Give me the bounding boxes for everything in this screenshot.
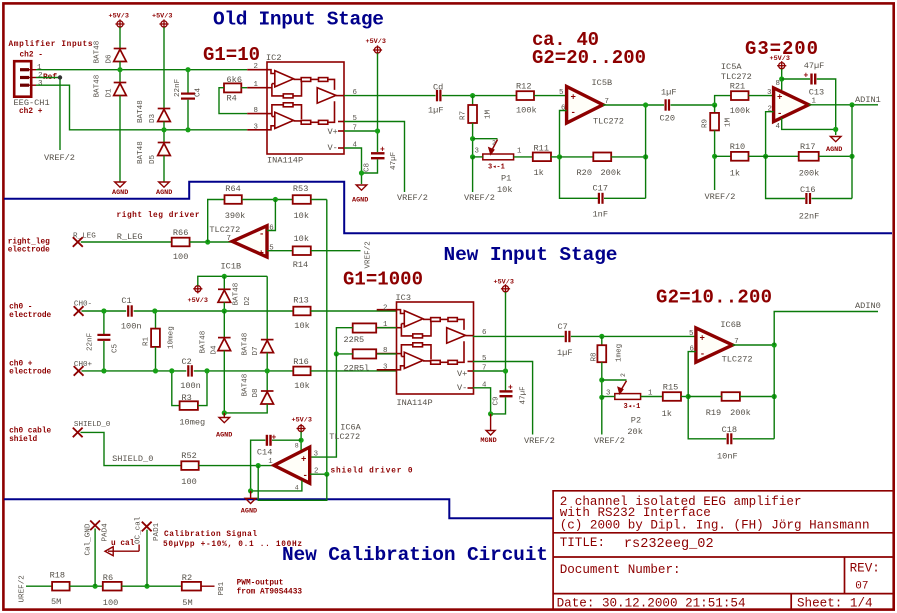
- wire IC5A V- to AGND row: [782, 118, 836, 129]
- wire IC3 pin5 to VREF/2: [473, 362, 533, 435]
- capacitor C6 1uF: [437, 90, 440, 101]
- ground AGND (D4/D8): [223, 413, 225, 417]
- svg-text:+: +: [571, 93, 576, 103]
- svg-text:22R5l: 22R5l: [344, 363, 370, 373]
- svg-text:1: 1: [37, 64, 42, 72]
- svg-text:P1: P1: [501, 174, 511, 184]
- svg-text:3◂-1: 3◂-1: [488, 164, 505, 172]
- svg-text:G1=10: G1=10: [203, 44, 260, 66]
- wire supply to pin8: [300, 432, 302, 450]
- svg-text:C20: C20: [660, 113, 675, 123]
- resistor R12 100k: [517, 91, 535, 100]
- capacitor C20 1uF: [666, 99, 669, 110]
- svg-text:22nF: 22nF: [799, 211, 820, 221]
- svg-text:3◂-1: 3◂-1: [624, 403, 641, 411]
- svg-text:+: +: [380, 146, 385, 155]
- wire IC6A feedback loop: [258, 466, 327, 501]
- svg-text:200k: 200k: [730, 408, 751, 418]
- svg-text:OC_cal: OC_cal: [135, 516, 143, 544]
- svg-text:10k: 10k: [294, 234, 309, 244]
- title block frame: [553, 491, 892, 610]
- wire D6 to ch2-: [119, 62, 121, 70]
- capacitor C1 100n (plates overwrite wire): [126, 305, 133, 318]
- wire shield to R52: [81, 432, 182, 465]
- svg-text:4: 4: [776, 123, 781, 131]
- node Ref corner dot: [58, 75, 62, 79]
- diode D7 BAT48: [261, 340, 274, 353]
- svg-text:5: 5: [689, 330, 693, 338]
- svg-text:7: 7: [227, 235, 231, 243]
- supply +5V/3 (D6): [115, 19, 124, 28]
- svg-text:2: 2: [492, 140, 496, 147]
- svg-text:VREF/2: VREF/2: [464, 193, 495, 203]
- svg-text:R10: R10: [730, 142, 745, 152]
- wire PAD4 down: [94, 529, 96, 587]
- svg-text:IC6A: IC6A: [340, 422, 361, 432]
- svg-text:D8: D8: [252, 388, 260, 398]
- svg-text:R3: R3: [182, 393, 192, 403]
- supply +5V/3 (D2): [193, 284, 202, 293]
- svg-text:5M: 5M: [182, 598, 192, 608]
- resistor R19 200k: [722, 392, 740, 401]
- ground MGND: [490, 414, 492, 431]
- svg-text:Old Input Stage: Old Input Stage: [213, 9, 384, 31]
- svg-text:10k: 10k: [294, 211, 309, 221]
- svg-text:C7: C7: [558, 322, 568, 332]
- svg-text:REV:: REV:: [850, 562, 880, 576]
- svg-text:VREF/2: VREF/2: [365, 241, 373, 269]
- svg-text:AGND: AGND: [112, 189, 128, 197]
- svg-text:R_LEG: R_LEG: [117, 232, 143, 242]
- svg-text:10k: 10k: [497, 185, 512, 195]
- svg-text:Amplifier Inputs: Amplifier Inputs: [9, 41, 93, 49]
- op-amp U IC5B: [567, 87, 603, 124]
- op-amp U IC5A: [774, 88, 809, 122]
- svg-text:20k: 20k: [627, 427, 642, 437]
- svg-text:VREF/2: VREF/2: [705, 192, 736, 202]
- svg-text:PAD4: PAD4: [102, 523, 110, 542]
- svg-text:(c) 2000 by Dipl. Ing. (FH) Jö: (c) 2000 by Dipl. Ing. (FH) Jörg Hansman…: [560, 519, 870, 533]
- wire IC6B feedback: [688, 352, 726, 439]
- svg-text:100n: 100n: [180, 381, 201, 391]
- svg-text:1k: 1k: [730, 168, 740, 178]
- svg-text:+: +: [272, 434, 277, 443]
- wire IC1B pin6 to R64/R53 node: [267, 200, 275, 231]
- resistor R53 10k: [293, 195, 311, 204]
- svg-text:R13: R13: [293, 295, 308, 305]
- svg-text:TLC272: TLC272: [721, 72, 752, 82]
- wire IC2 pin5 to VREF/2: [344, 122, 405, 193]
- wire +5V/3 to pin7: [505, 292, 507, 391]
- svg-text:3: 3: [475, 147, 479, 155]
- svg-text:1M: 1M: [725, 117, 733, 127]
- svg-text:C18: C18: [722, 425, 737, 435]
- svg-text:100n: 100n: [121, 321, 142, 331]
- svg-text:EEG-CH1: EEG-CH1: [14, 98, 50, 108]
- svg-text:IC3: IC3: [396, 293, 411, 303]
- svg-text:V+: V+: [457, 369, 467, 379]
- svg-text:47µF: 47µF: [804, 61, 825, 71]
- svg-text:R6: R6: [103, 573, 113, 583]
- node dots top line: [117, 67, 122, 72]
- wire R4 to pin1/pin8: [219, 88, 247, 114]
- supply +5V/3 (IC5A): [777, 61, 786, 70]
- svg-text:ch0 -: ch0 -: [9, 304, 32, 312]
- svg-text:ch2 +: ch2 +: [19, 108, 43, 116]
- resistor R15 1k: [663, 392, 681, 401]
- svg-text:R15: R15: [663, 382, 678, 392]
- svg-text:BAT48: BAT48: [94, 74, 102, 97]
- resistor R4 6k6: [224, 83, 241, 92]
- svg-text:rs232eeg_02: rs232eeg_02: [624, 537, 714, 552]
- diode D8 BAT48: [266, 371, 268, 391]
- resistor R66 100: [172, 238, 190, 247]
- svg-text:Date: 30.12.2000 21:51:54: Date: 30.12.2000 21:51:54: [557, 597, 746, 611]
- wire R16 to IC3 pin3: [311, 370, 397, 372]
- svg-text:+5V/3: +5V/3: [494, 279, 514, 287]
- resistor R18 5M: [52, 582, 70, 591]
- resistor R6 100: [103, 582, 122, 591]
- wire R12 to IC5B: [534, 95, 567, 97]
- svg-text:R9: R9: [702, 118, 710, 128]
- svg-text:Cd: Cd: [433, 83, 443, 93]
- svg-text:-: -: [777, 109, 782, 119]
- svg-text:D1: D1: [106, 88, 114, 98]
- op-amp U IC6A TLC272: [274, 447, 310, 483]
- svg-text:R_LEG: R_LEG: [73, 232, 96, 240]
- svg-text:INA114P: INA114P: [267, 156, 303, 166]
- op-amp U IC3 INA114P: [377, 302, 474, 394]
- svg-text:VREF/2: VREF/2: [524, 436, 555, 446]
- resistor R9 1M: [714, 105, 716, 113]
- svg-text:PWM-output: PWM-output: [237, 579, 284, 587]
- wire IC6A pin2 stub: [310, 473, 327, 475]
- svg-text:MGND: MGND: [480, 437, 496, 445]
- svg-text:New Input Stage: New Input Stage: [444, 244, 618, 266]
- svg-text:1µF: 1µF: [428, 106, 443, 116]
- wire R7 bottom to VREF/2: [472, 157, 474, 192]
- diode D6 BAT48: [114, 49, 127, 62]
- svg-text:ADIN1: ADIN1: [855, 95, 881, 105]
- svg-text:1: 1: [254, 81, 259, 89]
- resistor R14 10k: [293, 246, 311, 255]
- svg-text:ch0 +: ch0 +: [9, 360, 33, 368]
- wire IC1B pin5 to R14: [267, 250, 293, 252]
- svg-text:R18: R18: [50, 570, 65, 580]
- diode D5 BAT48: [163, 130, 165, 143]
- svg-text:VREF/2: VREF/2: [594, 436, 625, 446]
- svg-text:22nF: 22nF: [174, 78, 182, 97]
- resistor R8 1meg: [601, 336, 603, 345]
- svg-text:right_leg: right_leg: [8, 239, 50, 247]
- svg-text:100k: 100k: [730, 106, 751, 116]
- svg-text:PAD1: PAD1: [153, 522, 161, 541]
- svg-text:shield: shield: [9, 436, 37, 444]
- supply +5V/3 (IC6A): [297, 424, 306, 433]
- op-amp U IC1B TLC272: [232, 226, 267, 257]
- wire IC5A out ADIN1: [809, 104, 878, 106]
- svg-text:shield driver 0: shield driver 0: [331, 467, 413, 475]
- svg-text:electrode: electrode: [8, 247, 50, 255]
- op-amp U IC2 INA114P: [247, 62, 344, 154]
- capacitor C7 1uF: [566, 331, 570, 342]
- capacitor C13 47uF: [782, 78, 810, 80]
- wire VREF/2 to R18: [26, 585, 52, 587]
- wire IC6B out to ADIN0: [733, 344, 775, 346]
- svg-text:Calibration Signal: Calibration Signal: [164, 531, 257, 539]
- svg-text:C9: C9: [493, 396, 501, 406]
- svg-text:1M: 1M: [485, 109, 493, 119]
- svg-text:10meg: 10meg: [168, 326, 176, 349]
- svg-text:BAT48: BAT48: [242, 332, 250, 355]
- resistor R64 390k: [225, 195, 242, 204]
- wire C14 left to AGND column: [251, 440, 266, 491]
- svg-text:10k: 10k: [294, 321, 309, 331]
- capacitor C9 47uF: [500, 391, 513, 396]
- wire C20 to R21 node: [671, 96, 732, 105]
- svg-text:200k: 200k: [601, 168, 622, 178]
- svg-text:22nF: 22nF: [87, 332, 95, 351]
- svg-text:1nF: 1nF: [593, 210, 608, 220]
- wire D3 to ch2+: [163, 122, 165, 130]
- svg-text:from AT90S4433: from AT90S4433: [237, 588, 303, 596]
- capacitor C16 22nF: [766, 156, 805, 198]
- svg-text:390k: 390k: [225, 211, 246, 221]
- wire +5V/3 rail to V+ pin7 and C8: [377, 53, 379, 152]
- svg-text:G2=10..200: G2=10..200: [656, 287, 772, 309]
- svg-text:R52: R52: [181, 451, 196, 461]
- wire P1 terminals: [473, 156, 483, 158]
- wire common-mode rail (to IC6A pin2): [326, 200, 328, 475]
- svg-text:1k: 1k: [534, 168, 544, 178]
- svg-text:R64: R64: [225, 184, 240, 194]
- svg-text:1meg: 1meg: [616, 344, 624, 362]
- section divider calibration circuit: [4, 499, 553, 518]
- svg-text:V+: V+: [328, 127, 338, 137]
- svg-text:TLC272: TLC272: [722, 355, 753, 365]
- svg-text:AGND: AGND: [241, 507, 257, 515]
- wire IC5B feedback: [560, 111, 599, 199]
- wire midpoint to IC6A pin3: [311, 354, 336, 457]
- ground AGND (IC5A): [830, 137, 841, 142]
- svg-text:R12: R12: [516, 81, 531, 91]
- svg-text:+5V/3: +5V/3: [188, 297, 208, 305]
- capacitor C17 1nF: [599, 193, 603, 204]
- svg-text:47µF: 47µF: [520, 386, 528, 405]
- svg-text:8: 8: [254, 107, 258, 115]
- svg-text:D5: D5: [149, 154, 157, 164]
- svg-text:electrode: electrode: [9, 312, 51, 320]
- svg-text:D3: D3: [149, 113, 157, 123]
- svg-text:07: 07: [855, 581, 868, 593]
- diode D1 BAT48: [119, 70, 121, 83]
- svg-text:C1: C1: [121, 296, 131, 306]
- wire IC5B out: [603, 104, 664, 106]
- diode D3 BAT48: [158, 109, 171, 122]
- svg-text:TLC272: TLC272: [209, 225, 240, 235]
- diode D4 BAT48: [223, 311, 225, 338]
- resistor R17 200k: [766, 155, 799, 157]
- svg-text:R1: R1: [143, 336, 151, 346]
- wire supply to D3: [163, 27, 165, 108]
- wire C7 to IC6B pin5: [571, 335, 696, 337]
- svg-text:UREF/2: UREF/2: [19, 575, 27, 603]
- wire C6 to R12: [442, 95, 517, 97]
- svg-text:C17: C17: [593, 183, 608, 193]
- section divider old/new input stage: [4, 182, 892, 233]
- svg-text:VREF/2: VREF/2: [397, 193, 428, 203]
- wire IC6A pin4 to AGND: [251, 481, 302, 491]
- resistor R13 10k: [293, 307, 310, 316]
- capacitor C4 22nF: [181, 94, 195, 99]
- wire IC3 pin4 to MGND: [473, 388, 491, 414]
- svg-text:+: +: [508, 384, 513, 393]
- resistor 22R5L: [376, 353, 396, 355]
- svg-text:IC5A: IC5A: [721, 62, 742, 72]
- svg-text:IC5B: IC5B: [592, 78, 613, 88]
- wire R53 to common-mode rail: [311, 199, 327, 201]
- connector EEG-CH1: [14, 61, 36, 96]
- svg-text:+: +: [804, 72, 809, 81]
- resistor R20 200k: [560, 156, 594, 158]
- svg-text:TITLE:: TITLE:: [560, 536, 605, 550]
- svg-text:PB1: PB1: [218, 581, 226, 595]
- svg-text:ch0 cable: ch0 cable: [9, 427, 51, 435]
- svg-text:100: 100: [173, 252, 188, 262]
- svg-text:BAT48: BAT48: [94, 40, 102, 63]
- svg-text:3: 3: [314, 451, 318, 459]
- resistor R10 1k: [715, 155, 731, 157]
- svg-text:R7: R7: [460, 111, 468, 120]
- svg-text:R11: R11: [534, 143, 549, 153]
- svg-text:INA114P: INA114P: [397, 398, 433, 408]
- svg-text:+: +: [777, 93, 782, 103]
- svg-text:3: 3: [254, 123, 258, 131]
- svg-text:BAT48: BAT48: [200, 330, 208, 353]
- wire IC2 pin4 to AGND: [344, 148, 362, 184]
- trimmer P1 10k: [473, 138, 498, 140]
- svg-text:1µF: 1µF: [661, 87, 676, 97]
- svg-text:R14: R14: [293, 260, 308, 270]
- svg-text:ch2 -: ch2 -: [20, 52, 43, 60]
- svg-text:Document Number:: Document Number:: [560, 563, 681, 577]
- ground AGND (IC6A): [250, 491, 252, 498]
- svg-text:Sheet: 1/4: Sheet: 1/4: [797, 597, 873, 611]
- svg-text:+: +: [301, 455, 306, 465]
- wire R2 to PB1: [201, 585, 215, 587]
- wire Ref to VREF/2: [36, 78, 60, 151]
- svg-text:10meg: 10meg: [179, 417, 205, 427]
- svg-text:-: -: [700, 350, 705, 360]
- resistor 22R5 (R5): [376, 327, 396, 329]
- diode D2 BAT48: [223, 276, 225, 289]
- svg-text:BAT48: BAT48: [233, 282, 241, 305]
- wire ch0- line: [82, 310, 294, 312]
- svg-text:SHIELD_0: SHIELD_0: [112, 454, 153, 464]
- wire R14 to VREF/2: [311, 250, 361, 252]
- u cal measurement arrow: [105, 545, 139, 556]
- supply +5V/3 (D3): [159, 19, 168, 28]
- svg-text:47µF: 47µF: [390, 151, 398, 170]
- svg-text:IC2: IC2: [266, 53, 281, 63]
- svg-text:R53: R53: [293, 184, 308, 194]
- svg-text:1: 1: [268, 458, 273, 466]
- wire D5 to AGND: [163, 156, 165, 182]
- svg-text:8: 8: [295, 443, 299, 450]
- resistor R7 1M: [472, 96, 474, 105]
- svg-text:-: -: [571, 108, 576, 118]
- svg-text:R2: R2: [182, 573, 192, 583]
- svg-text:22R5: 22R5: [344, 335, 365, 345]
- svg-text:C5: C5: [112, 343, 120, 353]
- supply +5V/3 (IC2 V+): [373, 45, 382, 54]
- svg-text:3: 3: [767, 89, 771, 97]
- svg-text:R20: R20: [577, 168, 592, 178]
- svg-text:-: -: [303, 471, 308, 481]
- svg-text:-: -: [259, 230, 264, 240]
- svg-text:6k6: 6k6: [227, 75, 242, 85]
- svg-text:100: 100: [181, 477, 196, 487]
- resistor R16 10k: [293, 367, 310, 376]
- svg-text:SHIELD_0: SHIELD_0: [74, 421, 111, 429]
- svg-text:AGND: AGND: [156, 189, 172, 197]
- wire D7 chain vertical: [266, 276, 268, 339]
- svg-text:8: 8: [776, 80, 780, 88]
- svg-text:C8: C8: [364, 162, 372, 172]
- svg-text:+5V/3: +5V/3: [152, 13, 172, 21]
- wire PAD1 down: [146, 530, 148, 587]
- svg-text:BAT48: BAT48: [137, 141, 145, 164]
- svg-text:1k: 1k: [662, 409, 672, 419]
- wire supply to D6: [119, 27, 121, 48]
- svg-text:10k: 10k: [294, 381, 309, 391]
- resistor R21 100k: [731, 91, 749, 100]
- svg-text:V-: V-: [457, 383, 467, 393]
- svg-text:G1=1000: G1=1000: [343, 268, 423, 290]
- ground AGND (D1): [115, 182, 126, 187]
- svg-text:+5V/3: +5V/3: [366, 38, 386, 46]
- svg-text:R17: R17: [800, 142, 815, 152]
- svg-text:AGND: AGND: [826, 146, 842, 154]
- svg-text:+5V/3: +5V/3: [292, 417, 312, 425]
- capacitor C18 10nF: [728, 433, 732, 444]
- resistor R2 5M: [182, 582, 201, 591]
- trimmer P2 20k: [602, 379, 627, 381]
- svg-text:10nF: 10nF: [717, 451, 738, 461]
- svg-text:C14: C14: [257, 447, 272, 457]
- capacitor C8 47uF: [371, 153, 385, 158]
- ground AGND (D5): [159, 182, 170, 187]
- wire IC2 out to C6: [344, 95, 436, 97]
- wire R_LEG to R66: [81, 241, 172, 243]
- wire R66 to IC1B out: [190, 241, 233, 243]
- svg-text:u cal: u cal: [111, 540, 135, 548]
- svg-text:3: 3: [383, 363, 387, 371]
- svg-text:ADIN0: ADIN0: [855, 301, 881, 311]
- svg-text:2: 2: [254, 63, 258, 71]
- svg-text:R8: R8: [591, 352, 599, 362]
- svg-text:5: 5: [559, 89, 563, 97]
- svg-text:R16: R16: [293, 357, 308, 367]
- svg-text:5M: 5M: [51, 597, 61, 607]
- wire R13 to IC3 pin2: [311, 310, 397, 312]
- svg-text:BAT48: BAT48: [137, 100, 145, 123]
- svg-text:right leg driver: right leg driver: [117, 212, 200, 220]
- svg-text:100k: 100k: [516, 105, 537, 115]
- wire IC3 out to C7: [473, 335, 565, 337]
- wire C8 bottom to AGND node: [362, 159, 378, 173]
- wire R52 to IC6A out: [199, 465, 275, 467]
